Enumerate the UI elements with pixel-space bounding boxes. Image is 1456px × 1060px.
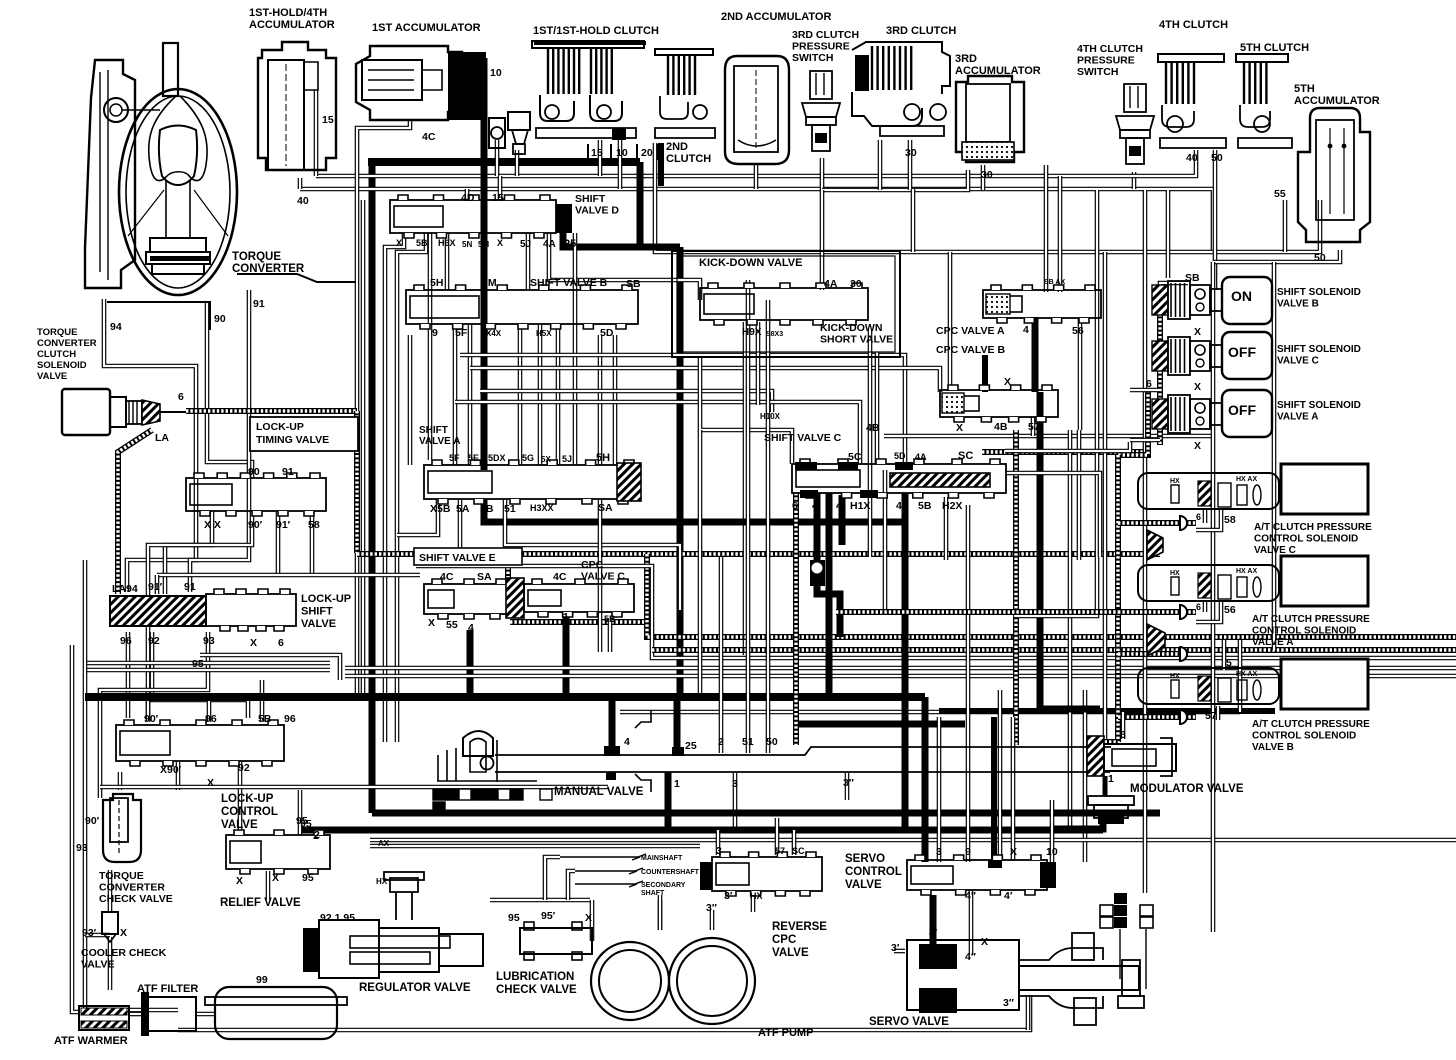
- svg-text:4C: 4C: [422, 131, 436, 143]
- regulator valve: [303, 928, 319, 972]
- wire 4 drop C with check: [814, 493, 821, 560]
- wire 5B thick down: [484, 500, 906, 522]
- svg-text:3″: 3″: [843, 777, 854, 789]
- svg-text:VALVE A: VALVE A: [1277, 412, 1318, 423]
- svg-text:CLUTCH: CLUTCH: [666, 153, 711, 165]
- 1st-hold/4th accumulator: [258, 42, 336, 170]
- wire x575 vertical: [573, 233, 578, 465]
- wire run y189: [300, 189, 1213, 252]
- svg-text:4A: 4A: [543, 239, 556, 250]
- wire 2nd accumulator drop: [754, 164, 759, 189]
- wire 4th pressure switch drop: [1132, 172, 1137, 189]
- wire hatched branch 57: [1118, 714, 1196, 720]
- wire x497 check: [495, 140, 500, 176]
- svg-text:SA: SA: [598, 502, 613, 514]
- svg-text:3RD: 3RD: [955, 53, 977, 65]
- wire at-sol C 6: [1203, 508, 1208, 523]
- wire lockup timing out X: [165, 512, 212, 594]
- fitting bowtie upper: [1147, 530, 1163, 560]
- wire 1 thick C: [563, 614, 570, 693]
- svg-text:5B: 5B: [480, 503, 494, 515]
- svg-text:1: 1: [311, 959, 317, 971]
- wire y840 run: [370, 838, 1456, 843]
- wire x615 vertical: [613, 335, 618, 465]
- 3rd accumulator: [956, 76, 1024, 162]
- svg-text:5X: 5X: [541, 455, 551, 464]
- svg-text:50: 50: [1314, 252, 1326, 264]
- wire 40 from 1st-hold accumulator: [298, 178, 303, 189]
- wire at-sol A 6: [1203, 600, 1208, 612]
- wire 30 from 3rd pressure switch: [820, 158, 825, 190]
- svg-text:95: 95: [300, 818, 312, 830]
- wire 3rd clutch 30 drop: [908, 140, 913, 190]
- wire 5J drop: [526, 233, 531, 290]
- wire 55 5th accumulator: [1283, 200, 1288, 252]
- svg-text:40: 40: [297, 195, 309, 207]
- svg-text:56: 56: [1224, 604, 1236, 616]
- wire y355 run: [460, 355, 905, 464]
- wire servo 4'' v: [969, 890, 974, 955]
- svg-text:HX: HX: [1170, 673, 1180, 680]
- svg-text:X: X: [1004, 376, 1011, 388]
- wire lube counter: [568, 871, 575, 900]
- wire 57 from CPC B: [1031, 417, 1036, 436]
- 1st accumulator: [356, 46, 462, 120]
- svg-text:VALVE A: VALVE A: [1252, 637, 1293, 648]
- wire 30 link: [822, 170, 968, 190]
- svg-text:3: 3: [732, 778, 738, 790]
- wire lockup timing 58: [310, 512, 315, 575]
- svg-text:A/T CLUTCH PRESSURE: A/T CLUTCH PRESSURE: [1254, 522, 1372, 533]
- lock-up shift valve: [110, 596, 206, 626]
- wire 4C from 1st accumulator: [357, 120, 410, 189]
- svg-text:X: X: [1010, 846, 1017, 858]
- svg-text:5N: 5N: [462, 240, 472, 249]
- svg-text:SHIFT SOLENOID: SHIFT SOLENOID: [1277, 287, 1361, 298]
- wire lockup shift 93: [100, 632, 208, 798]
- wire servo bottom 3'': [1026, 995, 1031, 1030]
- wire y670 run: [345, 666, 1456, 671]
- wire x885 v: [883, 470, 888, 612]
- svg-text:ACCUMULATOR: ACCUMULATOR: [1294, 95, 1380, 107]
- wire main line 1 (thick): [368, 158, 640, 166]
- wire x430 long: [428, 233, 433, 460]
- wire hatched SC link: [982, 449, 1150, 455]
- svg-text:OFF: OFF: [1228, 402, 1256, 418]
- svg-text:CPC VALVE B: CPC VALVE B: [936, 344, 1005, 356]
- wire x1079 56: [1077, 430, 1082, 560]
- svg-text:1ST-HOLD/4TH: 1ST-HOLD/4TH: [249, 7, 327, 19]
- svg-text:REVERSE: REVERSE: [772, 921, 827, 933]
- svg-text:1: 1: [563, 611, 569, 623]
- svg-text:3RD CLUTCH: 3RD CLUTCH: [886, 25, 956, 37]
- svg-text:50: 50: [766, 736, 778, 748]
- shift valve B: [406, 290, 638, 324]
- svg-text:LOCK-UP: LOCK-UP: [221, 793, 274, 805]
- svg-text:H3XX: H3XX: [530, 503, 554, 513]
- wire H10X run: [480, 391, 772, 412]
- wire H6X drop: [445, 233, 450, 290]
- lock-up timing valve label box: [250, 417, 358, 451]
- wire SA down: [598, 500, 603, 652]
- svg-text:SECONDARY: SECONDARY: [641, 882, 686, 889]
- wire thick y830: [302, 827, 1103, 834]
- svg-text:90′: 90′: [85, 815, 100, 827]
- wire 4 down to manual: [609, 697, 616, 750]
- wire x1085 v: [1083, 690, 1088, 862]
- svg-text:4C: 4C: [553, 571, 567, 583]
- svg-text:4: 4: [812, 500, 818, 512]
- svg-text:5A: 5A: [456, 503, 470, 515]
- wire x1000 v: [998, 690, 1003, 860]
- svg-text:5M: 5M: [478, 240, 489, 249]
- wire x968 v: [966, 505, 971, 640]
- svg-text:3: 3: [716, 845, 722, 857]
- svg-text:4A: 4A: [915, 452, 927, 462]
- wire hatched y650: [652, 647, 1456, 653]
- svg-text:4′: 4′: [929, 927, 938, 939]
- svg-text:TORQUE: TORQUE: [37, 327, 77, 338]
- svg-text:X: X: [428, 617, 435, 629]
- separator lines 15-10-20: [588, 144, 658, 160]
- cooler check valve: [102, 912, 118, 934]
- svg-text:PRESSURE: PRESSURE: [792, 41, 850, 53]
- wire 91 from TC: [190, 290, 249, 592]
- lock-up control valve: [116, 725, 284, 761]
- svg-text:CPC: CPC: [772, 934, 796, 946]
- wire x1035 v: [1032, 317, 1039, 392]
- svg-text:96: 96: [284, 713, 296, 725]
- svg-text:X: X: [396, 238, 402, 248]
- wire lockup shift 92: [152, 632, 248, 718]
- svg-text:AX: AX: [378, 839, 390, 848]
- wire y345 kickdown drop: [700, 357, 792, 464]
- svg-text:20: 20: [641, 147, 653, 159]
- wire lockup timing out 90': [148, 512, 252, 722]
- svg-text:X X: X X: [204, 519, 221, 531]
- svg-text:57: 57: [1028, 421, 1040, 433]
- wire cooler out: [108, 937, 113, 990]
- wire x1060 v: [1058, 176, 1063, 292]
- shift solenoid valve B box: [1222, 277, 1272, 324]
- lubrication check valve: [520, 928, 592, 954]
- shift valve E: [424, 584, 512, 614]
- wire servo10: [1050, 800, 1055, 862]
- wire vertical x363: [361, 200, 366, 693]
- wire hatched branch 58: [1118, 520, 1196, 526]
- svg-text:3′: 3′: [724, 890, 733, 902]
- svg-text:SOLENOID: SOLENOID: [37, 360, 87, 371]
- wire 10 drop: [618, 140, 623, 189]
- svg-text:CONTROL: CONTROL: [221, 806, 278, 818]
- wire x500 15-D: [498, 176, 503, 200]
- svg-text:HX: HX: [376, 877, 388, 886]
- svg-text:CONTROL SOLENOID: CONTROL SOLENOID: [1252, 731, 1356, 742]
- wire 50 drop from 5th clutch: [1213, 150, 1218, 290]
- servo gear indicator boxes: [1114, 893, 1127, 904]
- torque converter: [119, 89, 237, 295]
- wire y900 run: [490, 898, 590, 903]
- wire 20 drop: [655, 143, 913, 252]
- wire 4B vertical: [875, 352, 880, 464]
- svg-text:X: X: [207, 777, 214, 789]
- svg-text:A/T CLUTCH PRESSURE: A/T CLUTCH PRESSURE: [1252, 719, 1370, 730]
- svg-text:VALVE: VALVE: [301, 618, 336, 630]
- wire servo 3 v: [937, 717, 942, 862]
- relief valve: [226, 835, 330, 869]
- svg-text:CONVERTER: CONVERTER: [99, 882, 165, 894]
- svg-text:MANUAL VALVE: MANUAL VALVE: [554, 786, 644, 798]
- shift solenoid valve B: [1152, 281, 1222, 319]
- svg-text:SHIFT VALVE B: SHIFT VALVE B: [530, 277, 608, 289]
- wire pump link2: [658, 895, 663, 930]
- wire x700 down: [698, 430, 703, 693]
- wire servo 3' link: [894, 949, 905, 954]
- svg-text:4B: 4B: [866, 422, 880, 434]
- wire hatched main y554: [357, 551, 1160, 557]
- wire 4A drop: [549, 233, 700, 300]
- wire reverse SC v: [792, 830, 797, 855]
- wire servo 4' thick: [930, 895, 937, 944]
- wire 51 50 long up: [746, 280, 751, 300]
- wire 94 from TC: [104, 299, 196, 592]
- svg-text:VALVE: VALVE: [37, 371, 67, 382]
- svg-text:5: 5: [1226, 657, 1232, 669]
- wire y402 run: [455, 402, 860, 464]
- shift valve A: [424, 465, 640, 499]
- wire 90 from TC: [207, 302, 252, 478]
- svg-text:HX AX: HX AX: [1236, 568, 1257, 575]
- svg-text:SB: SB: [1185, 272, 1200, 284]
- svg-text:VALVE: VALVE: [845, 879, 882, 891]
- svg-text:VALVE C: VALVE C: [1277, 356, 1319, 367]
- svg-text:4D: 4D: [461, 192, 475, 204]
- svg-text:ATF FILTER: ATF FILTER: [137, 983, 198, 995]
- svg-text:5B: 5B: [416, 238, 428, 248]
- svg-text:5B: 5B: [918, 500, 932, 512]
- svg-text:93: 93: [76, 842, 88, 854]
- svg-text:VALVE D: VALVE D: [575, 205, 619, 217]
- 5th accumulator: [1298, 108, 1370, 242]
- wire at-sol B 57: [1216, 706, 1221, 720]
- wire lube mainshaft: [545, 857, 560, 900]
- wire x1080 v: [1078, 318, 1083, 430]
- wire x925 v: [922, 697, 929, 862]
- wire servo 4 thick: [991, 717, 997, 862]
- svg-text:SA: SA: [477, 571, 492, 583]
- wire tc check valve feed: [118, 772, 123, 790]
- wire 5A down: [458, 500, 463, 556]
- wire x600 vertical: [598, 335, 603, 465]
- wire sb to solenoid B: [1160, 283, 1188, 292]
- svg-text:4TH CLUTCH: 4TH CLUTCH: [1077, 43, 1143, 55]
- svg-text:56: 56: [1072, 325, 1084, 337]
- servo valve: [907, 940, 1019, 1010]
- kick-down valve box: [672, 251, 900, 357]
- svg-text:KICK-DOWN VALVE: KICK-DOWN VALVE: [699, 257, 802, 269]
- 4th clutch pressure switch: [1116, 84, 1154, 164]
- wire x985 v: [982, 355, 988, 392]
- svg-text:90′: 90′: [144, 713, 159, 725]
- wire run y176: [316, 174, 1060, 179]
- wire 4 thick E: [467, 630, 474, 693]
- manual valve: [463, 731, 493, 756]
- wire x1145 v: [1143, 190, 1148, 893]
- svg-text:3″: 3″: [706, 902, 717, 914]
- 3rd clutch pressure switch: [802, 71, 840, 151]
- wire H1X drop C: [826, 493, 833, 693]
- svg-text:91: 91: [184, 581, 196, 593]
- wire x558 B-A: [556, 325, 561, 465]
- svg-text:SC: SC: [792, 846, 805, 856]
- svg-text:5G: 5G: [522, 453, 534, 463]
- svg-text:58: 58: [308, 519, 320, 531]
- svg-text:10: 10: [1046, 846, 1058, 858]
- wire hatched LA drop: [118, 430, 152, 594]
- svg-text:2ND ACCUMULATOR: 2ND ACCUMULATOR: [721, 11, 831, 23]
- wire x1240 v: [1238, 640, 1243, 712]
- wire 25 thick riser: [637, 162, 644, 247]
- svg-text:1ST ACCUMULATOR: 1ST ACCUMULATOR: [372, 22, 481, 34]
- svg-text:10: 10: [616, 147, 628, 159]
- svg-text:92: 92: [238, 762, 250, 774]
- 1st/1st-hold clutch: [532, 41, 644, 48]
- svg-text:VALVE B: VALVE B: [1277, 299, 1319, 310]
- svg-text:MODULATOR VALVE: MODULATOR VALVE: [1130, 783, 1244, 795]
- wire x520 B-A: [518, 325, 523, 465]
- svg-text:SB: SB: [626, 278, 641, 290]
- wire 15 from 1st-hold accumulator: [314, 90, 319, 176]
- svg-text:OFF: OFF: [1228, 344, 1256, 360]
- svg-text:4: 4: [1023, 324, 1029, 336]
- wire lockup shift 96: [126, 632, 131, 718]
- svg-text:51: 51: [504, 503, 516, 515]
- wire hatched to modulator: [1087, 739, 1118, 745]
- wire warmer to filter: [128, 1012, 141, 1017]
- wire reverse 57 v: [775, 818, 780, 855]
- svg-text:3RD CLUTCH: 3RD CLUTCH: [792, 29, 859, 41]
- svg-text:92: 92: [148, 635, 160, 647]
- wire left border x85: [85, 560, 178, 1010]
- wire at-sol B 5: [1222, 640, 1227, 670]
- wire thick y711: [939, 708, 1275, 714]
- svg-text:CLUTCH: CLUTCH: [37, 349, 76, 360]
- 2nd accumulator: [725, 56, 789, 164]
- check ball C: [810, 560, 825, 586]
- wire 51 manual: [746, 300, 751, 753]
- wire 50 manual: [766, 300, 771, 753]
- svg-text:VALVE C: VALVE C: [1254, 545, 1296, 556]
- svg-text:30: 30: [981, 169, 993, 181]
- svg-text:96: 96: [205, 713, 217, 725]
- svg-text:6: 6: [278, 637, 284, 649]
- wire left border x72: [72, 645, 80, 1012]
- svg-text:VALVE B: VALVE B: [1252, 742, 1294, 753]
- svg-text:SHIFT VALVE C: SHIFT VALVE C: [764, 432, 842, 444]
- svg-text:SHIFT: SHIFT: [301, 606, 333, 618]
- svg-text:6: 6: [1120, 729, 1126, 741]
- A/T clutch pressure control solenoid valve C: [1138, 473, 1279, 509]
- svg-text:91′: 91′: [148, 581, 163, 593]
- svg-text:ACCUMULATOR: ACCUMULATOR: [955, 65, 1041, 77]
- A/T clutch pressure control solenoid valve A: [1138, 565, 1279, 601]
- shift solenoid valve C box: [1222, 332, 1272, 379]
- svg-text:CHECK VALVE: CHECK VALVE: [99, 893, 173, 905]
- svg-text:CONTROL SOLENOID: CONTROL SOLENOID: [1252, 626, 1356, 637]
- fitting D 56: [1180, 605, 1187, 619]
- wire 4 drop C lower: [817, 586, 840, 637]
- svg-text:5TH: 5TH: [1294, 83, 1315, 95]
- svg-text:LA94: LA94: [112, 583, 138, 595]
- wire lockup timing out 91': [276, 512, 281, 575]
- svg-text:5H: 5H: [596, 452, 610, 464]
- wire modulator 6: [1121, 712, 1126, 739]
- wire cooler check: [108, 870, 113, 912]
- wire x1046 v: [1044, 165, 1049, 292]
- svg-text:X90′: X90′: [160, 764, 182, 776]
- wire hatched solenoid feed: [1118, 390, 1148, 455]
- svg-text:94: 94: [110, 321, 122, 333]
- kick-down valve: [700, 288, 868, 320]
- wire thick x484: [481, 58, 488, 470]
- svg-text:ACCUMULATOR: ACCUMULATOR: [249, 19, 335, 31]
- svg-text:15: 15: [591, 147, 603, 159]
- shift solenoid valve C: [1152, 337, 1222, 375]
- svg-text:COUNTERSHAFT: COUNTERSHAFT: [641, 869, 700, 876]
- svg-text:5C: 5C: [848, 451, 862, 463]
- wire lockup control feed 5B: [260, 680, 265, 722]
- svg-text:6: 6: [1196, 602, 1201, 612]
- pin valve: [508, 112, 530, 130]
- svg-text:58: 58: [1224, 514, 1236, 526]
- wire H2X drop: [944, 497, 949, 560]
- svg-text:SERVO: SERVO: [845, 853, 885, 865]
- svg-text:4′: 4′: [1004, 890, 1013, 902]
- svg-text:TORQUE: TORQUE: [99, 870, 144, 882]
- svg-text:SHIFT: SHIFT: [419, 425, 448, 436]
- svg-text:TORQUE: TORQUE: [232, 251, 281, 263]
- svg-text:5J: 5J: [520, 239, 531, 250]
- wire lockup control feed 96: [207, 700, 212, 722]
- wire y846 run: [370, 844, 700, 849]
- svg-text:93: 93: [203, 635, 215, 647]
- svg-text:X: X: [272, 872, 279, 884]
- wire hatched y637: [647, 554, 1456, 637]
- svg-text:CONVERTER: CONVERTER: [37, 338, 97, 349]
- svg-text:COOLER CHECK: COOLER CHECK: [81, 947, 167, 959]
- wire 3rd accumulator 30: [981, 165, 986, 190]
- svg-text:99: 99: [256, 974, 268, 986]
- svg-text:X: X: [981, 936, 988, 948]
- wire y368 run: [470, 368, 940, 392]
- svg-text:1ST/1ST-HOLD CLUTCH: 1ST/1ST-HOLD CLUTCH: [533, 25, 659, 37]
- wire hatched y612 long: [836, 609, 1118, 615]
- wire hatched E-cap feed: [505, 554, 511, 582]
- wire H9X drop: [743, 322, 748, 655]
- svg-text:SHIFT SOLENOID: SHIFT SOLENOID: [1277, 400, 1361, 411]
- svg-text:5F: 5F: [449, 453, 460, 463]
- wire 5B drop C: [608, 618, 613, 652]
- svg-text:X: X: [585, 912, 592, 924]
- fitting D 57: [1180, 710, 1187, 724]
- svg-text:4TH CLUTCH: 4TH CLUTCH: [1159, 19, 1228, 31]
- wire servo X port: [1011, 717, 1016, 860]
- wire lockup control out 92: [238, 762, 243, 830]
- wire bottom y935 left: [85, 933, 110, 938]
- wire x950 v: [948, 252, 953, 390]
- svg-text:4: 4: [836, 500, 842, 512]
- svg-text:2ND: 2ND: [666, 141, 688, 153]
